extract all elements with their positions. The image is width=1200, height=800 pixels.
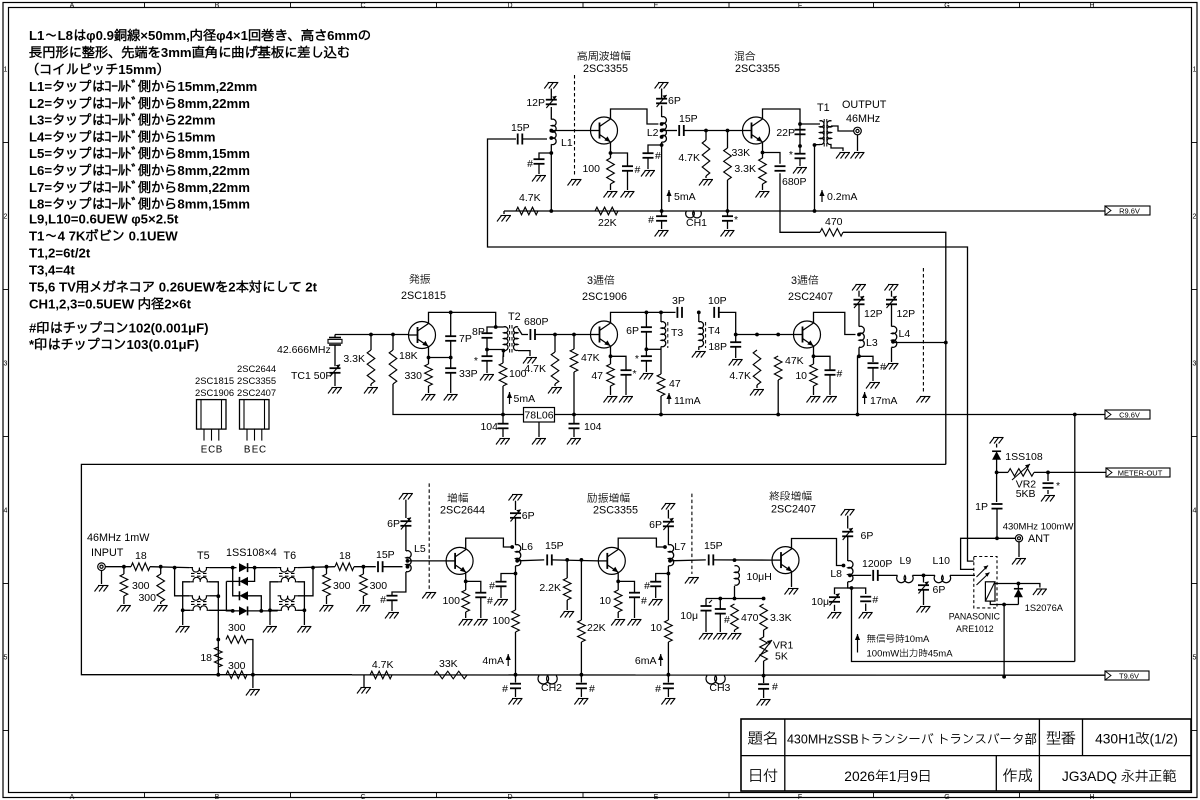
wire 300a gnd (123, 596, 125, 604)
svg-text:12P: 12P (864, 308, 883, 320)
wire T9.6V routing (box top/left/bottom) (81, 464, 945, 674)
svg-text:430MHzSSBトランシーバ トランスバータ部: 430MHzSSBトランシーバ トランスバータ部 (787, 732, 1037, 747)
node T4 top (697, 311, 701, 315)
wire crystal to TC1 (334, 345, 336, 366)
wire d row1 right (248, 567, 278, 569)
svg-text:10μ: 10μ (680, 610, 698, 622)
resistor 22K (rail) (595, 207, 618, 229)
relay contact arrow RX (977, 573, 990, 586)
svg-text:INPUT: INPUT (91, 547, 124, 559)
capacitor # chip (Q5 emitter) (825, 368, 843, 380)
wire att upper right (247, 640, 253, 675)
node reg out (572, 413, 576, 417)
package pinout 2SC1815/2SC1906 (195, 375, 234, 456)
node L3 tap (857, 333, 861, 337)
node ANT (995, 536, 999, 540)
resistor 10 (Q5 emitter) (795, 364, 817, 386)
svg-text:*: * (633, 368, 637, 380)
resistor 47K (tripler1 top bias) (570, 349, 599, 372)
frame column tick (290, 3, 292, 8)
node meter right (1046, 471, 1050, 475)
svg-text:15P: 15P (545, 540, 564, 552)
node Q4 emitter (609, 354, 613, 358)
node tripler bias 1 (553, 333, 557, 337)
svg-text:4: 4 (1193, 508, 1197, 515)
wire 3.3K to VR1 (763, 630, 765, 637)
wire 7P to 33P (450, 341, 452, 368)
wire L3 # cap (859, 356, 873, 362)
ground above L5 (399, 494, 413, 500)
wire 2.2K gnd (566, 600, 568, 610)
wire Q7 emitter (617, 573, 619, 591)
ground below rail # cap (655, 231, 669, 237)
choke CH2 (538, 676, 562, 695)
wire 6P L8 coil (847, 536, 849, 561)
capacitor # chip (PA out) (860, 594, 878, 606)
ground below # cap (L2) (641, 171, 655, 177)
wire L6 feed to rail (515, 632, 517, 675)
wire Q3 collector top (429, 312, 496, 327)
capacitor # chip (Q6 emitter) (475, 593, 493, 607)
svg-text:2SC2644: 2SC2644 (237, 363, 276, 374)
svg-text:300: 300 (228, 660, 246, 672)
variable resistor VR2 5KB (1008, 464, 1036, 500)
wire to 8P (487, 327, 496, 333)
wire Q2 emitter to 680P (763, 153, 781, 164)
resistor 3.3K (PA bias) (760, 604, 792, 630)
wire 104a gnd (502, 428, 504, 437)
wire T6 A2 left (270, 582, 278, 625)
wire T4 bottom gnd (698, 347, 700, 351)
wire # L6 gnd (500, 586, 502, 598)
svg-text:T6: T6 (284, 550, 297, 562)
wire T3 top (660, 312, 662, 322)
wire # rail cap gnd (661, 221, 663, 229)
wire 15P to Q2 base (684, 130, 743, 132)
svg-text:430H1改(1/2): 430H1改(1/2) (1095, 732, 1178, 747)
transformer T6 winding B1 (278, 596, 298, 600)
resistor 33K (mixer bias upper) (724, 147, 750, 180)
svg-text:0.2mA: 0.2mA (827, 191, 857, 203)
wire d row1 left (209, 567, 236, 569)
capacitor # chip (rail Q7) (655, 683, 674, 695)
ground below 3.3K osc (364, 388, 378, 394)
wire T2 prim top (496, 326, 504, 328)
node in 1 (122, 565, 126, 569)
wire # rail 3 gnd (667, 689, 669, 697)
node Q6 emitter (464, 580, 468, 584)
ground below * T2 (480, 375, 494, 381)
node rail Q7 (667, 673, 671, 677)
transformer T2 core (509, 325, 511, 353)
trimmer capacitor 6P (L8) (842, 528, 873, 542)
svg-text:47: 47 (669, 378, 681, 390)
wire 1SS108 top (996, 444, 998, 448)
wire * T2 gnd (486, 361, 488, 373)
svg-text:混合: 混合 (734, 50, 757, 63)
node 3.3K top (762, 597, 766, 601)
current arrow PA (857, 634, 859, 653)
trimmer capacitor 12P (L3) (854, 296, 883, 320)
ground below # Q5 (823, 397, 837, 403)
wire 33K down to rail (727, 131, 729, 149)
svg-text:4.7K: 4.7K (372, 659, 394, 671)
svg-text:*: * (734, 214, 738, 226)
svg-text:B: B (215, 794, 220, 800)
svg-text:L5=タップはｺｰﾙﾄﾞ側から8mm,15mm: L5=タップはｺｰﾙﾄﾞ側から8mm,15mm (29, 146, 250, 161)
ground below TC1 (328, 388, 342, 394)
svg-text:2SC3355: 2SC3355 (593, 505, 638, 517)
wire # pa stub (719, 599, 721, 609)
svg-text:330: 330 (404, 370, 422, 382)
wire # Q5 gnd (829, 375, 831, 395)
svg-text:10μH: 10μH (747, 571, 772, 583)
ground below rail * cap (721, 231, 735, 237)
wire 3.3K gnd (370, 335, 372, 351)
svg-text:4.7K: 4.7K (524, 363, 546, 375)
svg-text:6P: 6P (649, 519, 662, 531)
ground below rail cap 3 (661, 699, 675, 705)
wire 3.3K gnd2 (370, 384, 372, 386)
title block grid (741, 719, 1191, 791)
wire Q6 # cap (466, 581, 481, 592)
svg-text:100: 100 (582, 163, 600, 175)
node T5 in (173, 566, 177, 570)
wire 6P L6 to coil (515, 518, 517, 545)
svg-text:3.3K: 3.3K (770, 612, 792, 624)
transformer T6 winding A2 (278, 577, 298, 581)
capacitor 104 (reg out) (569, 421, 602, 433)
resistor 330 (Q3 emitter) (404, 364, 432, 386)
ground below T2 secondary (523, 358, 537, 364)
diode 1SS108 (meter) (992, 451, 1043, 463)
transistor Q2 2SC3355 mixer (743, 117, 770, 144)
capacitor # chip (L6) (489, 580, 506, 592)
ground of shield line (RF amp) (568, 180, 582, 186)
wire # cap rail stub 3 (667, 675, 669, 683)
svg-text:18: 18 (339, 550, 351, 562)
wire 1200P to L9 (878, 574, 898, 576)
node rail T3 (659, 413, 663, 417)
svg-text:46MHz: 46MHz (846, 113, 880, 125)
svg-text:104: 104 (584, 421, 602, 433)
wire L2 out to 15P (662, 130, 677, 132)
node d4 left (231, 609, 235, 613)
wire 300c gnd (326, 596, 328, 604)
node L8 tap out (848, 574, 852, 578)
trimmer capacitor 6P (L6) (510, 510, 535, 523)
svg-text:L9: L9 (900, 555, 912, 567)
svg-text:2.2K: 2.2K (539, 582, 561, 594)
wire 10u pa gnd (834, 605, 836, 611)
svg-text:#印はチップコン102(0.001μF): #印はチップコン102(0.001μF) (29, 321, 209, 336)
node drv 1 (565, 558, 569, 562)
svg-text:L3=タップはｺｰﾙﾄﾞ側から22mm: L3=タップはｺｰﾙﾄﾞ側から22mm (29, 113, 216, 128)
wire Q1 collector to L2 (611, 109, 659, 124)
svg-text:T3: T3 (671, 327, 683, 339)
ground below # Q6 (474, 620, 488, 626)
wire C9.6V feed down (1074, 415, 1076, 662)
svg-text:1P: 1P (975, 501, 988, 513)
node osc base 1 (369, 333, 373, 337)
node 8P bottom (485, 348, 489, 352)
svg-text:#: # (724, 614, 730, 626)
svg-text:（コイルピッチ15mm）: （コイルピッチ15mm） (26, 62, 170, 77)
wire stub gnd L2 (661, 89, 663, 90)
svg-text:E: E (654, 794, 659, 800)
svg-text:#: # (648, 214, 654, 226)
inductor L2 (647, 117, 667, 142)
svg-text:T1,2=6t/2t: T1,2=6t/2t (29, 246, 91, 261)
svg-text:2SC2407: 2SC2407 (237, 387, 276, 398)
node T2 prim bottom (502, 349, 506, 353)
inductor L8 (830, 561, 853, 582)
wire Q5 emitter to # cap (814, 356, 831, 370)
svg-text:10: 10 (795, 370, 807, 382)
ground below * cap (T1) (793, 168, 807, 174)
frame column tick (728, 3, 730, 8)
svg-text:4mA: 4mA (482, 655, 504, 667)
svg-text:2SC3355: 2SC3355 (735, 63, 780, 75)
transistor Q5 2SC2407 tripler2 (794, 321, 821, 348)
wire 47 T3 to rail (660, 396, 662, 415)
node L4 out junction (944, 341, 948, 345)
svg-text:CH3: CH3 (709, 682, 730, 694)
wire T5 B1 right link (209, 595, 218, 597)
svg-text:470: 470 (741, 612, 759, 624)
svg-text:G: G (944, 794, 949, 800)
svg-text:L5: L5 (414, 543, 426, 555)
resistor 4.7K (tripler1 bias) (524, 352, 558, 384)
svg-text:T9.6V: T9.6V (1119, 671, 1139, 680)
node Q1 emitter (609, 151, 613, 155)
transistor Q1 2SC3355 RF amp (591, 117, 618, 144)
wire # pa gnd (719, 614, 721, 632)
wire # rail 4 gnd (763, 690, 765, 699)
svg-text:T4: T4 (708, 325, 720, 337)
resistor 300 (post shunt 2) (360, 574, 388, 596)
svg-text:C: C (360, 794, 365, 800)
svg-text:T2: T2 (508, 311, 521, 323)
wire t2 base line (736, 334, 794, 336)
trimmer capacitor 6P (L7) (649, 518, 674, 531)
wire ANT gnd (1018, 542, 1020, 557)
node rail L3 (856, 413, 860, 417)
node L1 cold junction (549, 151, 553, 155)
svg-text:H: H (1089, 2, 1094, 9)
ground above L3 (852, 285, 866, 291)
svg-text:1S2076A: 1S2076A (1025, 603, 1064, 613)
wire L5 bottom (392, 572, 406, 596)
ground above L6 (509, 495, 523, 501)
svg-text:2: 2 (4, 214, 8, 221)
svg-text:3: 3 (4, 361, 8, 368)
node L8 tap in (842, 564, 846, 568)
wire 330 gnd (428, 386, 430, 393)
wire 6P filt gnd (923, 590, 925, 605)
svg-text:B: B (244, 445, 251, 456)
svg-text:F: F (798, 794, 802, 800)
resistor 300 (att lower) (226, 660, 247, 679)
svg-text:430MHz 100mW: 430MHz 100mW (1003, 522, 1074, 533)
svg-text:42.666MHz: 42.666MHz (277, 344, 331, 356)
capacitor # chip (L7) (644, 580, 661, 592)
svg-text:300: 300 (370, 580, 388, 592)
ground below 3.3K (Q2) (756, 192, 770, 198)
wire L9 to L10 (913, 574, 936, 576)
node L6 tap out (515, 559, 519, 563)
trimmer capacitor 12P (L1 tune) (526, 96, 556, 109)
svg-text:78L06: 78L06 (524, 410, 553, 422)
svg-text:300: 300 (228, 622, 246, 634)
ground below * Q4 (619, 397, 633, 403)
diode D1 1SS108 (239, 563, 248, 572)
wire cap to ground (538, 164, 540, 174)
wire # cap below rail (661, 211, 663, 216)
ground below INPUT connector (95, 586, 109, 592)
svg-text:2SC1906: 2SC1906 (195, 387, 234, 398)
node T1 top (798, 122, 802, 126)
inductor L10 (933, 555, 951, 583)
trimmer capacitor 6P (L5) (387, 518, 411, 531)
svg-text:L1～L8はφ0.9銅線×50mm,内径φ4×1回巻き、高さ: L1～L8はφ0.9銅線×50mm,内径φ4×1回巻き、高さ6mmの (29, 28, 371, 43)
wire ANT node to connector (997, 537, 1015, 539)
wire L4 bottom gnd (891, 348, 893, 363)
wire # L7 gnd (655, 586, 657, 598)
node drv 2 (580, 558, 584, 562)
ground above L1 (544, 83, 558, 89)
resistor 470 (PA bias) (731, 604, 759, 630)
resistor 4.7K (bias rail) (370, 659, 394, 679)
node d1 left (231, 566, 235, 570)
capacitor 10P (708, 295, 727, 318)
svg-text:A: A (70, 2, 75, 9)
wire L6 out (517, 559, 544, 562)
wire reg gnd (538, 422, 540, 437)
ground below 4.7K (mixer) (699, 180, 713, 186)
trimmer capacitor 6P (L2 tune) (656, 95, 681, 107)
svg-text:E: E (201, 445, 208, 456)
svg-text:T5,6 TV用メガネコア 0.26UEWを2本対にして 2: T5,6 TV用メガネコア 0.26UEWを2本対にして 2t (29, 280, 318, 295)
wire Q6 collector (466, 538, 513, 549)
wire 47K t2 rail (777, 380, 779, 415)
node rail L1 (549, 209, 553, 213)
current arrow 4mA (482, 654, 510, 667)
ground above L7 (661, 504, 675, 510)
capacitor * chip (rail bypass 2) (722, 214, 738, 226)
svg-text:17mA: 17mA (870, 395, 897, 407)
node rail Q6 (514, 673, 518, 677)
svg-text:4.7K: 4.7K (519, 192, 541, 204)
svg-text:B: B (216, 445, 223, 456)
current arrow 11mA (666, 393, 700, 407)
svg-text:#: # (635, 164, 641, 176)
capacitor 1P (975, 501, 1002, 513)
svg-text:CH1: CH1 (686, 217, 707, 229)
shield dashed line (driver right) (691, 494, 693, 574)
node T5 sec left (181, 608, 185, 612)
wire # Q7 gnd (634, 597, 636, 618)
wire T2 sec bottom gnd (518, 351, 530, 356)
ground below attenuator (246, 690, 260, 696)
node L5 tap low (406, 565, 410, 569)
capacitor 8P (472, 326, 493, 338)
wire T5 A2 right (209, 582, 218, 596)
ground below # cap (Q1) (621, 192, 635, 198)
svg-text:10P: 10P (708, 295, 727, 307)
inductor L9 (897, 555, 914, 583)
wire 10u gnd (705, 611, 707, 632)
wire T2 sec top to 680P (518, 328, 528, 335)
capacitor 7P (feedback) (445, 333, 472, 345)
node Q3 emitter (427, 356, 431, 360)
frame row tick (3, 289, 9, 291)
node post 1 (325, 565, 329, 569)
wire T rail (choke section) (352, 674, 1105, 676)
svg-text:C: C (208, 445, 215, 456)
svg-text:L6: L6 (521, 541, 533, 553)
resistor 22K (driver bias low) (578, 620, 606, 642)
svg-text:ANT: ANT (1028, 533, 1050, 545)
wire 12P L4 to coil (891, 304, 893, 326)
svg-text:PANASONIC: PANASONIC (949, 612, 1001, 622)
ground below 100 (Q1) (604, 192, 618, 198)
wire # cap rail stub 2 (580, 675, 582, 683)
inductor L3 (859, 326, 878, 349)
ground below * t1 (639, 374, 653, 380)
wire Q8 emitter gnd (791, 572, 793, 588)
current arrow 17mA (862, 392, 897, 407)
ground below 10u PA (828, 613, 842, 619)
svg-text:*印はチップコン103(0.01μF): *印はチップコン103(0.01μF) (29, 337, 199, 352)
choke CH3 (706, 676, 731, 695)
wire * Q4 gnd (625, 375, 627, 395)
wire L2 bottom down to rail (661, 142, 663, 211)
node rail VR1 (762, 674, 766, 678)
node L2 collector tap (660, 122, 664, 126)
trimmer capacitor 6P (filter) (918, 582, 945, 597)
wire 18K top (392, 335, 394, 351)
svg-text:*: * (635, 353, 639, 365)
wire 1SS108 to VR2 (996, 460, 998, 473)
ground below # L7 (649, 600, 663, 606)
wire 10 Q7 gnd (617, 612, 619, 618)
ground below 10 Q5 (807, 397, 821, 403)
node Q7 emitter (616, 580, 620, 584)
diode D4 1SS108 (239, 606, 248, 615)
wire # Q6 gnd (480, 597, 482, 618)
inductor L4 (892, 326, 911, 347)
svg-text:2SC3355: 2SC3355 (583, 63, 628, 75)
wire * cap below rail (727, 211, 729, 216)
svg-text:100: 100 (442, 595, 460, 607)
capacitor 33P (feedback) (445, 368, 477, 380)
inductor L7 (668, 541, 686, 566)
wire 2.2K wires (566, 560, 568, 578)
wire Q3 emitter (428, 347, 430, 365)
svg-text:E: E (252, 445, 259, 456)
capacitor 3P (672, 295, 685, 318)
capacitor # chip (L2 cold) (643, 150, 662, 162)
svg-text:22K: 22K (598, 217, 617, 229)
svg-text:L2=タップはｺｰﾙﾄﾞ側から8mm,22mm: L2=タップはｺｰﾙﾄﾞ側から8mm,22mm (29, 96, 250, 111)
ground below T4 (692, 352, 706, 358)
node L7 bottom (667, 572, 671, 576)
transformer T5 core B (191, 601, 209, 603)
transformer T1 primary (820, 121, 825, 145)
transformer T6 core A (279, 572, 297, 574)
svg-text:H: H (1089, 794, 1094, 800)
